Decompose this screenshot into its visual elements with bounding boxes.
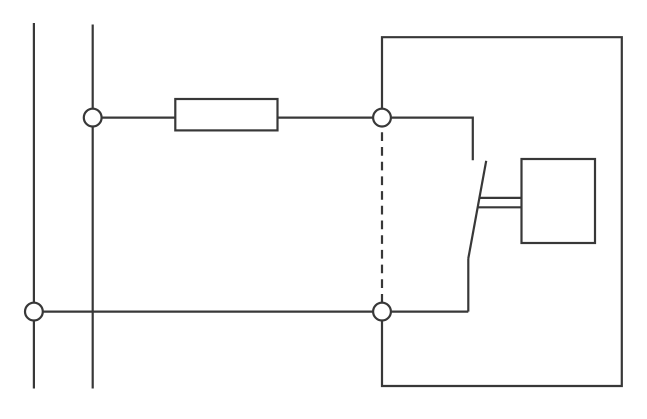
mechanical link (double line) to actuator bbox=[478, 198, 522, 207]
wire: bottom horizontal conductor bbox=[34, 311, 468, 313]
terminal node on enclosure, top-left bbox=[373, 109, 391, 127]
terminal node on enclosure, bottom-left bbox=[373, 303, 391, 321]
actuator / operating element box bbox=[522, 159, 596, 243]
resistor (rectangular body) bbox=[175, 99, 277, 130]
enclosure outline (device boundary box) bbox=[382, 37, 622, 386]
wire: top horizontal conductor from rail 2 through resistor to contact stub bbox=[93, 118, 473, 161]
wire: dashed link between terminals (x=382) bbox=[381, 118, 383, 312]
terminal node on rail 1 (bottom) bbox=[25, 303, 43, 321]
wire: lower switch conductor bbox=[467, 259, 469, 312]
terminal node on rail 2 (top) bbox=[84, 109, 102, 127]
switch contact blade bbox=[468, 161, 486, 259]
wire: left supply rail 2 bbox=[92, 25, 94, 389]
wire: left supply rail 1 bbox=[33, 23, 35, 389]
